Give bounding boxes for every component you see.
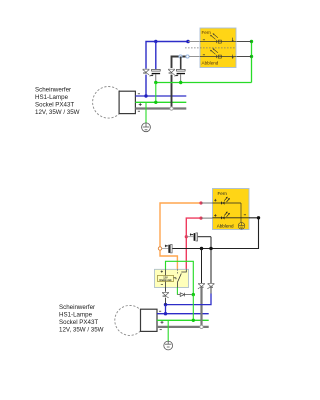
lamp L1 Fern (bar + circle + NW arrows) (200, 33, 236, 43)
node green (251.5,41.5) (250, 40, 253, 43)
wire black bus y248.5 (173, 218, 259, 249)
orange connector circle (158, 247, 161, 250)
node blue (165.5,304.6) (164, 303, 167, 306)
node blue junction (145,96) (144, 94, 147, 97)
svg-text:HS1-Lampe: HS1-Lampe (59, 312, 93, 319)
suppressor Z2 (169, 69, 175, 74)
node black (258.5,218) (257, 216, 260, 219)
connector circle (180,56.5) (179, 55, 182, 58)
pin label - (bot, bottom ckt) (160, 329, 162, 331)
wire green dot to pin line (192, 295, 194, 321)
pin label + (mid) (139, 103, 142, 106)
headlight unit box U1 (200, 28, 236, 68)
wire blue Fern feed (corner + vertical) (146, 42, 188, 69)
ground arrow (Fern right) (232, 38, 234, 42)
wire green from relay bottom to diode (176, 288, 178, 295)
label - (U2 right) (244, 214, 246, 216)
wire green ground drop (bottom ckt) (167, 320, 169, 341)
wire internal Fern to ground circle (240, 203, 242, 222)
node blue terminal (188,41.5) (186, 40, 190, 44)
node blue (165.5,313.5) (164, 312, 167, 315)
wire green ground drop (145, 102, 147, 123)
pin label - (top, bottom ckt) (159, 310, 161, 312)
pin label - (bottom) (138, 110, 140, 112)
headlight unit box U2 (213, 189, 250, 230)
wire box right to green riser (Abblend ground) (236, 56, 252, 58)
relay switch blade (174, 269, 187, 287)
wire dark below D2 (210, 288, 212, 294)
connector circle on grey pin (200, 325, 203, 328)
zener diode D1 (198, 283, 205, 288)
diode D3 (horizontal) (177, 293, 191, 297)
node red junction (186.3,236.7) (185, 235, 188, 238)
relay internal minus wire (165, 282, 167, 288)
wire grey pin (horizontal thick) (157, 326, 209, 328)
pin label - (top) (138, 93, 140, 95)
ground symbol G2 (164, 341, 173, 350)
wire dark relay minus to suppressor (165, 288, 167, 292)
wire green right riser x251.5 (251, 42, 253, 83)
node connector (201,203) crimson (199, 201, 202, 204)
svg-text:Scheinwerfer: Scheinwerfer (35, 87, 71, 94)
label - (relay) (161, 283, 163, 285)
wire orange below circle to relay (160, 250, 177, 269)
svg-text:Fern: Fern (202, 30, 212, 35)
svg-text:12V, 35W / 35W: 12V, 35W / 35W (35, 109, 80, 116)
wire green relay plus loop (166, 261, 194, 294)
wire grey pin ground (horizontal thick) (135, 107, 186, 109)
wire black tap2 down (210, 249, 212, 284)
wire blue pin 56a (horizontal) (135, 95, 186, 97)
ground circle symbol (inside U2) (238, 223, 245, 230)
svg-text:Sockel PX43T: Sockel PX43T (59, 319, 98, 326)
label + (relay) (161, 270, 163, 272)
capacitor C3 (horizontal, on red tap) (186, 233, 211, 249)
node black (211,248.5) (209, 247, 212, 250)
node green (180,82.5) (179, 81, 182, 84)
bulb glass B1 (dashed circle) (93, 87, 125, 119)
label - (Fern) (203, 39, 205, 41)
node connector (201,218.1) crimson (199, 217, 202, 220)
capacitor C2 (drop + plates + green drop) (180, 57, 182, 70)
wire thick grey from D1 (200, 288, 202, 327)
wire black tap1 down (201, 249, 203, 284)
ground arrow (Abblend right) (232, 55, 234, 59)
lamp L2 Abblend (bar + circle + NW arrows) (200, 48, 236, 58)
wire thick Abblend corner (172, 57, 188, 69)
wire grey stub to box (Fern) (188, 41, 200, 43)
svg-text:Sockel PX43T: Sockel PX43T (35, 102, 74, 109)
relay box U3 (155, 269, 189, 287)
svg-text:Abblend: Abblend (217, 224, 234, 229)
label text Scheinwerfer HS1-Lampe (bottom) (59, 304, 104, 334)
node black (201.5,248.5) (200, 247, 203, 250)
pin label + (mid, bottom ckt) (161, 321, 164, 324)
node green (156,82.5) (154, 81, 157, 84)
bulb socket X1 (119, 91, 135, 113)
wire box right to green riser (Fern ground) (236, 41, 252, 43)
svg-text:12V, 35W / 35W: 12V, 35W / 35W (59, 327, 104, 334)
zener diode D2 (207, 283, 214, 288)
suppressor Z1 (143, 69, 149, 74)
label + (Fern U2) (214, 199, 217, 202)
wire blue elbow to x165.5 (166, 294, 212, 305)
wire blue pin (horizontal) (157, 313, 209, 315)
svg-text:Scheinwerfer: Scheinwerfer (59, 304, 95, 311)
wire grey stub (red to box U2) (201, 217, 213, 219)
connector circle (187.5,56.5) (186, 55, 189, 58)
wire blue below suppressor Z1 (145, 75, 147, 96)
relay internal plus wire (165, 269, 167, 275)
wire grey stub to box (Abblend) (189, 56, 200, 58)
connector circle on grey pin (top ckt) (170, 107, 173, 110)
wire blue vertical to pin line (165, 305, 167, 314)
node green (156,102.3) (154, 101, 157, 104)
relay inner label box (158, 275, 174, 281)
label + (Abblend U2) (214, 214, 217, 217)
node green (193.3,294.6) (192, 293, 195, 296)
bulb glass B2 (dashed circle) (115, 305, 145, 335)
wire thick below suppressor Z2 to connector (171, 75, 173, 109)
wire dark suppressor to blue node (165, 298, 167, 305)
suppressor Z3 (163, 292, 169, 298)
wire grey stub (orange to box U2) (201, 202, 213, 204)
lamp L3 Fern (bowtie + NE arrows) (213, 197, 242, 205)
capacitor C1 (blue drop + plates + green drop) (155, 42, 157, 70)
bulb socket X2 (141, 309, 158, 331)
lamp L4 Abblend (bowtie + NE arrows) (213, 212, 250, 220)
ground symbol G1 (142, 123, 151, 132)
node green (251.5,56.5) (250, 55, 253, 58)
relay actuation dashed line (176, 269, 178, 274)
wire green pin (horizontal) (157, 319, 209, 321)
wire green vertical cap1 to pin (155, 83, 157, 103)
svg-text:HS1-Lampe: HS1-Lampe (35, 94, 69, 101)
capacitor C4 (horizontal, at orange connector) (162, 245, 172, 253)
svg-text:Fern: Fern (218, 191, 228, 196)
label text Scheinwerfer HS1-Lampe (top) (35, 87, 80, 117)
node green (193.3,319.8) (192, 319, 195, 322)
label - (Abblend) (203, 54, 205, 56)
wire orange Fern feed (160, 203, 201, 247)
wire red Abblend feed riser (186, 218, 201, 269)
node blue junction (156,41.5) (154, 40, 157, 43)
wire green bus y82.5 (156, 82, 252, 84)
dashed separator line (185, 47, 236, 49)
svg-text:Abblend: Abblend (202, 61, 219, 66)
wire green pin + (horizontal) (135, 101, 186, 103)
